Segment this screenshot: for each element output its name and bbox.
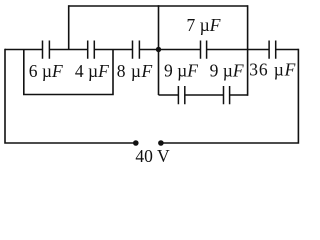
wire rail segment 3 [94,49,132,51]
svg-text:40 V: 40 V [135,146,170,166]
capacitor C3 8uF plates [133,41,140,59]
wire shorting loop below 6uF and 4uF [24,50,113,95]
battery negative terminal dot [158,140,164,146]
svg-text:9 µF: 9 µF [210,61,244,81]
capacitor C1 6uF plates [43,41,50,59]
wire top bridge [69,5,248,7]
svg-text:36 µF: 36 µF [249,60,296,80]
capacitor C4 7uF plates [201,41,207,59]
wire rail segment 5 [207,49,270,51]
wire rail segment 2 [49,49,87,51]
battery positive terminal dot [133,140,139,146]
svg-text:8 µF: 8 µF [117,61,153,81]
wire right bridge drop [247,5,249,96]
capacitor C2 4uF plates [88,41,95,59]
svg-text:4 µF: 4 µF [75,61,109,81]
wire rail segment 1 [5,49,43,51]
wire rail segment 4 [139,49,200,51]
wire rail segment 6 [276,49,299,51]
svg-text:9 µF: 9 µF [164,61,198,81]
wire lower branch segment 2 [185,94,224,96]
wire left side and bottom-left to battery [5,49,136,143]
capacitor C7 9uF plates [224,86,230,104]
node A junction dot [156,47,161,52]
capacitor C5 36uF plates [269,41,276,59]
wire node drop through node A to lower branch [158,5,160,95]
capacitor C6 9uF plates [178,86,184,104]
wire lower branch segment 1 [159,94,179,96]
wire right side and bottom-right to battery [161,49,299,143]
wire left bridge drop [68,5,70,49]
svg-text:7 µF: 7 µF [187,15,221,35]
wire lower branch segment 3 [230,94,248,96]
svg-text:6 µF: 6 µF [29,61,63,81]
